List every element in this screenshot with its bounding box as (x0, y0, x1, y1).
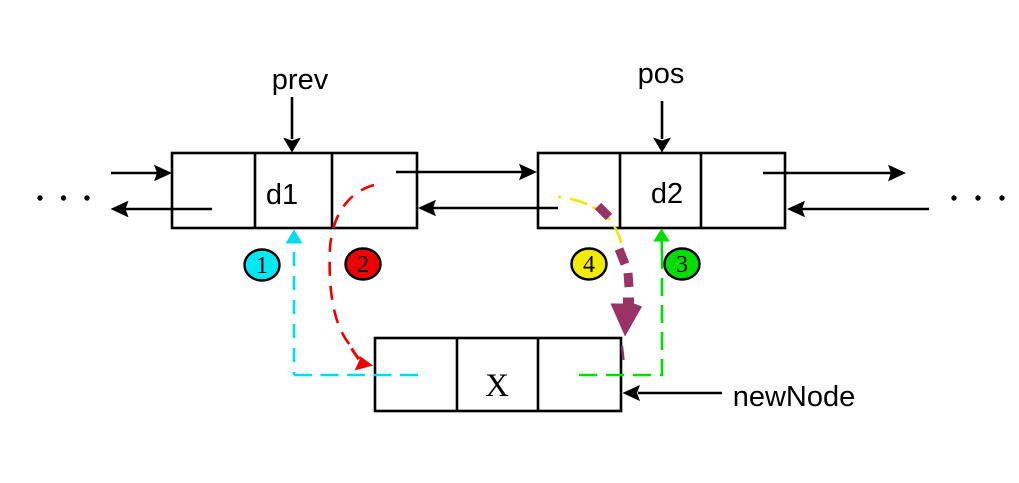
svg-text:d1: d1 (266, 179, 298, 211)
svg-text:newNode: newNode (733, 381, 856, 413)
svg-text:2: 2 (357, 252, 369, 278)
svg-text:pos: pos (638, 58, 685, 90)
svg-text:X: X (485, 368, 509, 404)
svg-text:1: 1 (256, 253, 268, 279)
svg-text:d2: d2 (651, 178, 683, 210)
svg-text:prev: prev (272, 64, 329, 96)
svg-text:3: 3 (676, 252, 688, 278)
svg-text:4: 4 (583, 252, 595, 278)
